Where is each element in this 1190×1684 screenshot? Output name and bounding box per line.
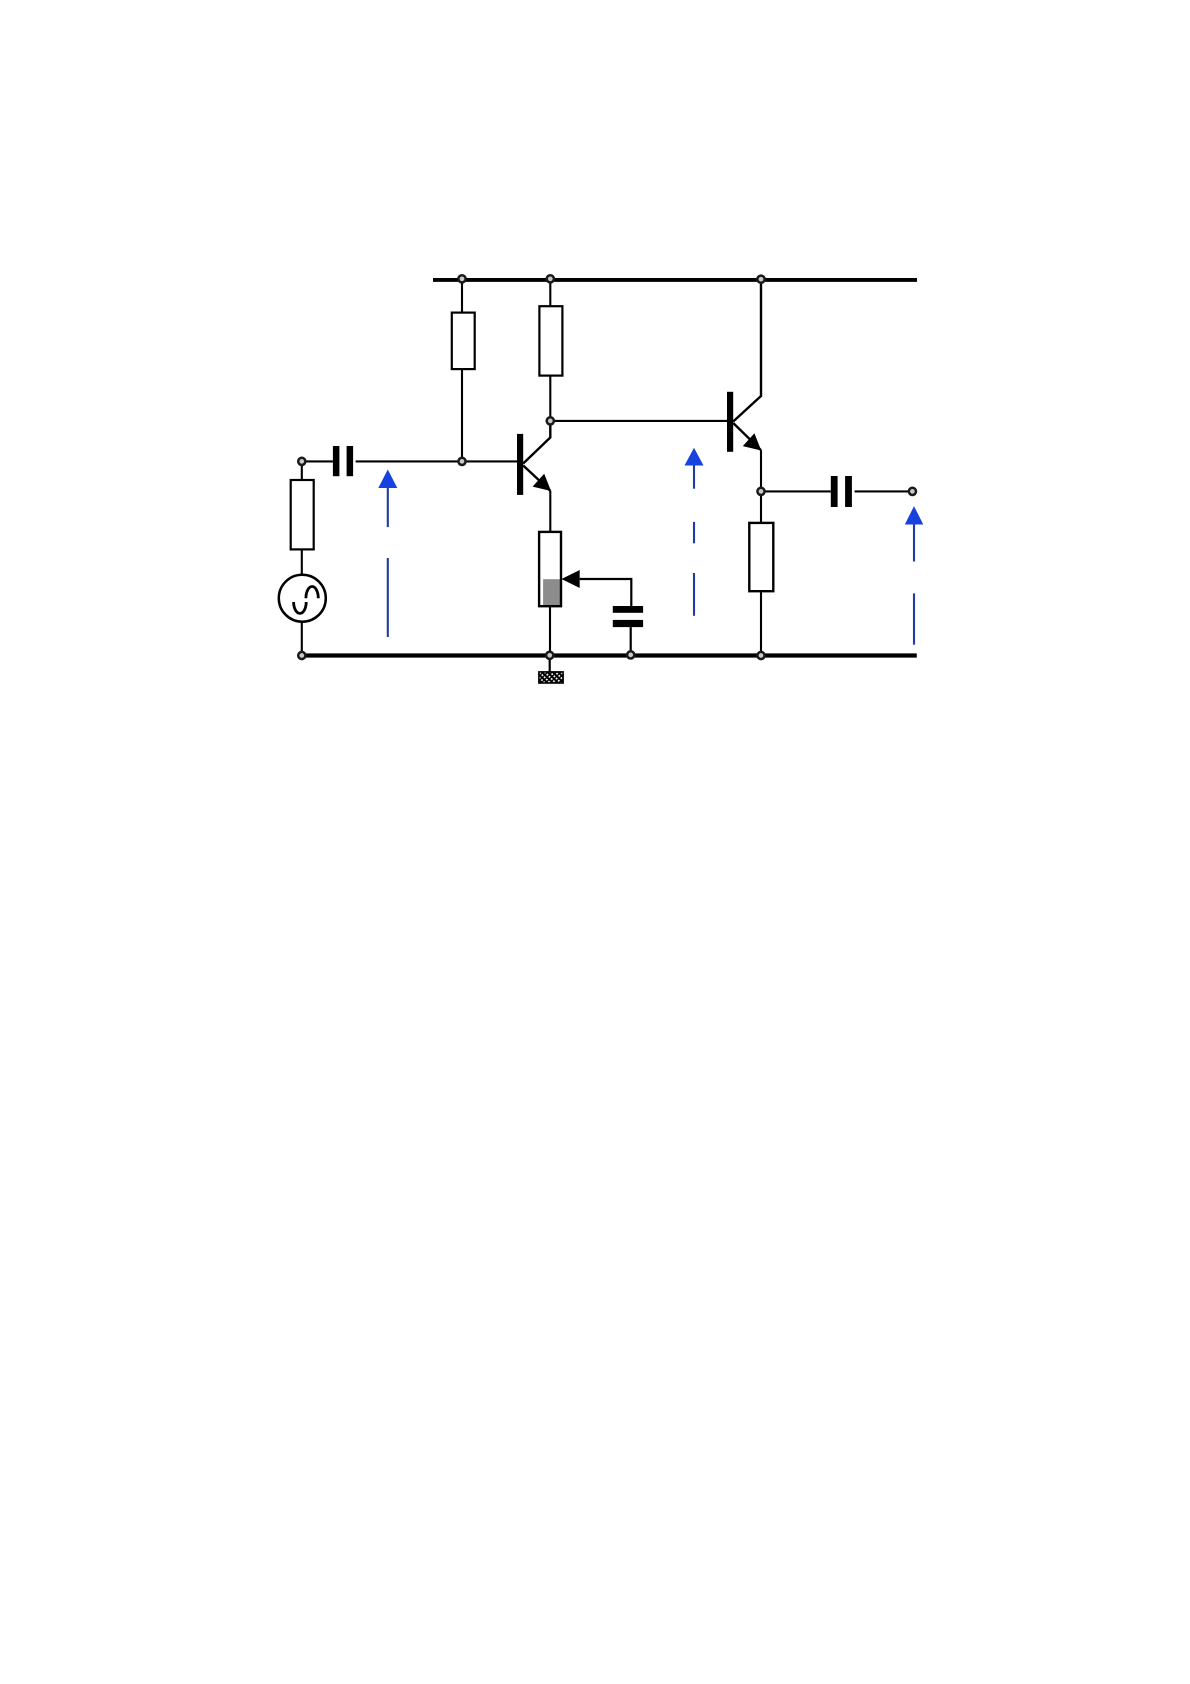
transistor Q1 base bar	[517, 434, 523, 495]
resistor R2	[539, 306, 562, 375]
wire Q2 emitter down	[760, 450, 762, 491]
voltage arrow v2 head	[685, 448, 704, 466]
potentiometer R3 gray slider fill	[543, 579, 560, 605]
wire R4 top lead	[760, 491, 762, 523]
node top rail R2	[547, 275, 554, 282]
transistor Q2 emitter arrow	[743, 433, 761, 450]
wire C1 to Q1 base	[356, 460, 518, 462]
wire source to ground rail	[301, 622, 303, 656]
voltage arrow v1 stem	[387, 488, 389, 527]
transistor Q1 emitter arrow	[533, 474, 551, 491]
wire C2 to ground rail	[630, 627, 632, 655]
wire terminal to Rs	[301, 465, 303, 480]
wire terminal to C1	[306, 460, 333, 462]
ground symbol	[539, 672, 563, 683]
resistor Rs	[291, 480, 314, 549]
transistor Q1 collector lead	[523, 421, 550, 464]
wire R2 top lead	[549, 280, 551, 306]
output terminal	[909, 488, 916, 495]
wire R3 bottom to ground rail	[549, 606, 551, 655]
node Q2 emitter	[757, 488, 764, 495]
node ground rail center	[546, 652, 553, 659]
node top rail R1	[458, 275, 465, 282]
node Q1 collector	[547, 417, 554, 424]
node base junction	[458, 458, 465, 465]
Vcc top rail	[433, 278, 917, 282]
capacitor C1	[333, 446, 340, 476]
resistor R1	[452, 313, 475, 370]
AC source V1	[279, 575, 326, 622]
transistor Q2 base bar	[727, 392, 733, 452]
ground bottom rail	[302, 653, 917, 657]
capacitor C2	[613, 606, 643, 613]
node ground rail C2	[627, 651, 634, 658]
voltage arrow v2 stem	[693, 466, 695, 489]
transistor Q2 emitter lead	[733, 423, 761, 450]
wire Q1 emitter down	[549, 491, 551, 532]
wire C3 to output terminal	[855, 490, 909, 492]
node ground rail left	[298, 652, 305, 659]
wire wiper to C2	[580, 579, 632, 606]
wire R1 top lead	[461, 280, 463, 313]
voltage arrow vout head	[905, 506, 924, 524]
voltage arrow v1 head	[378, 470, 397, 489]
voltage arrow vout stem	[913, 525, 915, 562]
wire Q1 collector to Q2 base	[550, 420, 727, 422]
wire ground lead	[549, 655, 551, 672]
wire Rs to source	[301, 549, 303, 574]
potentiometer R3 body	[539, 532, 561, 606]
capacitor C3	[831, 476, 838, 507]
transistor Q2 collector lead	[733, 280, 761, 422]
input terminal	[298, 458, 305, 465]
wire R1 bottom lead	[461, 369, 463, 461]
resistor R4	[749, 523, 773, 591]
node ground rail R4	[757, 652, 764, 659]
wire emitter node to C3	[761, 490, 831, 492]
wire R2 bottom lead	[549, 376, 551, 421]
node top rail Q2 collector	[757, 276, 764, 283]
transistor Q1 emitter lead	[523, 466, 550, 491]
wire R4 to ground rail	[760, 591, 762, 655]
potentiometer R3 wiper arrow	[562, 570, 580, 588]
